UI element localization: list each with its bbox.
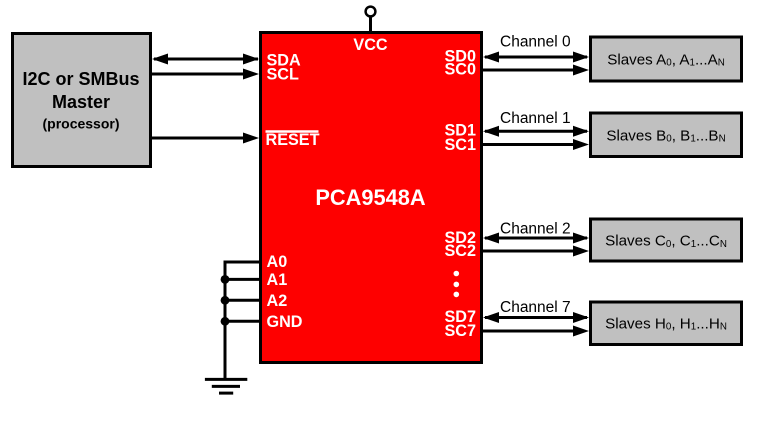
block: Slaves A <box>591 37 742 81</box>
svg-text:Master: Master <box>52 92 110 112</box>
ground symbol <box>205 379 247 393</box>
svg-text:A2: A2 <box>267 292 288 310</box>
pin label RESET (active low, with overline) <box>266 131 320 149</box>
wire address bus vertical <box>224 261 227 380</box>
svg-text:Slaves A0, A1...AN: Slaves A0, A1...AN <box>607 51 725 68</box>
wire SD0 (bidirectional arrow) <box>483 52 589 63</box>
ellipsis dots for channels 3-6 <box>454 271 460 298</box>
node junction GND <box>221 317 230 326</box>
svg-text:A0: A0 <box>267 253 288 271</box>
svg-text:Channel 0: Channel 0 <box>500 34 571 51</box>
svg-text:Channel 7: Channel 7 <box>500 299 571 316</box>
svg-text:I2C or SMBus: I2C or SMBus <box>22 69 139 89</box>
wire A2 <box>225 299 260 302</box>
svg-text:SCL: SCL <box>267 66 299 84</box>
wire SDA (bidirectional arrow master-mux) <box>152 54 259 65</box>
wire SD2 (bidirectional arrow) <box>483 233 589 244</box>
wire SC7 (arrow into slaves H) <box>483 326 589 337</box>
block: Slaves B <box>591 113 742 157</box>
svg-text:VCC: VCC <box>353 36 387 54</box>
block: Slaves H <box>591 302 742 345</box>
wire A1 <box>225 278 260 281</box>
wire SC1 (arrow into slaves B) <box>483 139 589 150</box>
svg-text:PCA9548A: PCA9548A <box>315 185 426 210</box>
node junction A1 <box>221 275 230 284</box>
wire GND <box>225 320 260 323</box>
block: I2C or SMBus Master (processor) <box>13 34 151 167</box>
svg-text:RESET: RESET <box>266 131 320 149</box>
svg-text:SC0: SC0 <box>445 61 477 79</box>
svg-text:SC1: SC1 <box>445 136 477 154</box>
svg-text:Channel 1: Channel 1 <box>500 110 571 127</box>
svg-text:Slaves B0, B1...BN: Slaves B0, B1...BN <box>606 127 725 144</box>
mux U1 PCA9548A body <box>261 33 482 363</box>
wire RESET (arrow into mux) <box>152 133 259 144</box>
wire A0 <box>225 261 260 264</box>
svg-text:SC7: SC7 <box>445 322 477 340</box>
wire SC2 (arrow into slaves C) <box>483 246 589 257</box>
svg-text:A1: A1 <box>267 271 288 289</box>
svg-text:SC2: SC2 <box>445 242 477 260</box>
wire SD7 (bidirectional arrow) <box>483 312 589 323</box>
wire SD1 (bidirectional arrow) <box>483 126 589 137</box>
wire SC0 (arrow into slaves A) <box>483 65 589 76</box>
wire SCL (arrow into mux) <box>152 69 259 80</box>
block: Slaves C <box>591 219 742 261</box>
power terminal VCC (circle + stem) <box>366 7 376 32</box>
svg-text:GND: GND <box>267 313 303 331</box>
node junction A2 <box>221 296 230 305</box>
svg-text:Channel 2: Channel 2 <box>500 221 571 238</box>
svg-text:(processor): (processor) <box>42 116 119 132</box>
